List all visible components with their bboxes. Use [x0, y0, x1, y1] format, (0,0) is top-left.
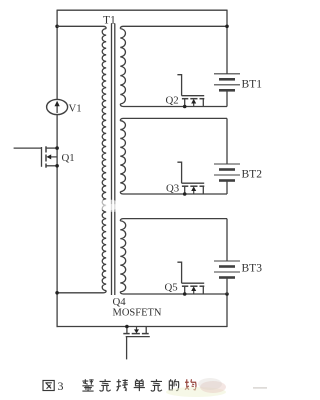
transistor Q5 body arrow — [191, 286, 196, 294]
svg-text:Q5: Q5 — [165, 282, 178, 294]
transistor Q1 body arrow — [46, 154, 57, 159]
node primary-bottom junction on left rail — [55, 291, 59, 295]
wire BT2 positive lead — [226, 118, 228, 164]
transistor Q2 drain lead — [202, 99, 204, 107]
svg-text:BT3: BT3 — [242, 263, 263, 275]
source V1 arrow — [55, 101, 60, 113]
transistor Q3 channel segments — [182, 185, 204, 187]
node primary-top junction on left rail — [55, 25, 59, 29]
transistor Q2 body arrow — [191, 99, 196, 107]
wire secondary-3 top lead — [120, 219, 227, 221]
node Q2 source junction — [183, 105, 187, 109]
scan artifact white smudge — [96, 200, 120, 211]
transistor Q1 channel segments — [45, 146, 47, 167]
wire right rail BT3-to-bottom — [226, 294, 228, 327]
wire secondary-3 bottom lead (Q5 line) — [120, 292, 227, 294]
transformer T1 core line right — [114, 24, 116, 296]
transistor Q1 drain lead — [46, 147, 57, 149]
transistor Q5 channel segments — [182, 285, 204, 287]
transformer T1 secondary winding 2 — [120, 121, 125, 192]
transistor Q3 drain lead — [202, 186, 204, 194]
svg-text:T1: T1 — [103, 15, 116, 27]
node Q1 source junction — [55, 164, 59, 168]
wire secondary-2 bottom lead (Q3 line) — [120, 192, 227, 194]
transistor Q1 source lead — [46, 165, 57, 167]
transistor Q4 source lead — [126, 327, 128, 334]
wire secondary-1 bottom lead (Q2 line) — [120, 104, 227, 107]
wire right rail BT1 branch — [226, 10, 228, 74]
transistor Q2 source lead — [184, 99, 186, 107]
wire left rail lower (V1 to bottom) — [56, 115, 58, 328]
svg-text:Q3: Q3 — [166, 183, 179, 195]
node Q5 source junction — [183, 292, 187, 296]
transistor Q2 gate plate — [182, 95, 205, 97]
svg-text:3: 3 — [58, 379, 64, 393]
caption faded smudge — [166, 378, 267, 397]
node Q3 source junction — [183, 192, 187, 196]
wire BT2 negative lead — [226, 181, 228, 194]
battery BT3 plates — [214, 261, 240, 278]
caption figure number 图 3 — [43, 380, 54, 390]
transistor Q5 gate plate — [182, 282, 205, 284]
wire BT3 negative lead — [226, 278, 228, 294]
battery BT1 plates — [214, 74, 240, 91]
caption text 整充转单充的均 — [82, 379, 196, 391]
transistor Q5 drain lead — [202, 286, 204, 294]
transformer T1 secondary winding 3 — [120, 221, 125, 292]
svg-text:Q4: Q4 — [113, 296, 127, 308]
wire left rail upper (to V1) — [56, 10, 58, 100]
transformer T1 secondary winding 1 — [120, 29, 125, 104]
transistor Q4 drain lead — [145, 327, 147, 334]
wire bottom bus (Q4 drain-source line) — [57, 326, 228, 328]
svg-text:V1: V1 — [69, 103, 82, 115]
source V1 circle — [47, 99, 68, 114]
transistor Q3 gate plate — [182, 182, 205, 184]
wire top bus — [57, 9, 227, 11]
node Q1 drain junction — [55, 146, 59, 150]
wire secondary-1 top lead — [120, 26, 227, 28]
svg-text:BT1: BT1 — [242, 79, 263, 91]
transformer T1 primary winding — [102, 29, 106, 291]
transistor Q4 gate plate — [126, 336, 150, 338]
wire BT3 positive lead — [226, 219, 228, 261]
wire BT1 negative lead — [226, 90, 228, 106]
node secondary-1/BT1 junction — [225, 25, 229, 29]
svg-text:Q1: Q1 — [62, 152, 75, 164]
battery BT2 plates — [214, 164, 240, 181]
transistor Q1 gate plate — [41, 147, 43, 167]
svg-text:BT2: BT2 — [242, 169, 263, 181]
svg-text:Q2: Q2 — [166, 95, 179, 107]
transistor Q1 gate wire — [14, 147, 42, 149]
transistor Q5 source lead — [184, 286, 186, 294]
wire secondary-2 top lead — [120, 118, 227, 120]
transistor Q2 gate lead — [177, 75, 181, 96]
node Q4 source junction — [125, 325, 129, 329]
transistor Q2 channel segments — [182, 98, 204, 100]
transistor Q4 channel segments — [123, 333, 148, 335]
transistor Q3 body arrow — [191, 186, 196, 194]
wire primary top lead — [57, 26, 106, 28]
svg-text:MOSFETN: MOSFETN — [113, 308, 162, 319]
transistor Q3 source lead — [184, 186, 186, 194]
transistor Q5 gate lead — [177, 262, 181, 283]
transistor Q4 gate lead — [126, 337, 128, 360]
node secondary-3/BT3 junction — [225, 292, 229, 296]
transistor Q3 gate lead — [177, 162, 181, 183]
transistor Q4 body arrow — [134, 327, 139, 334]
transformer T1 core line left — [111, 24, 113, 296]
wire primary bottom lead — [57, 291, 106, 293]
